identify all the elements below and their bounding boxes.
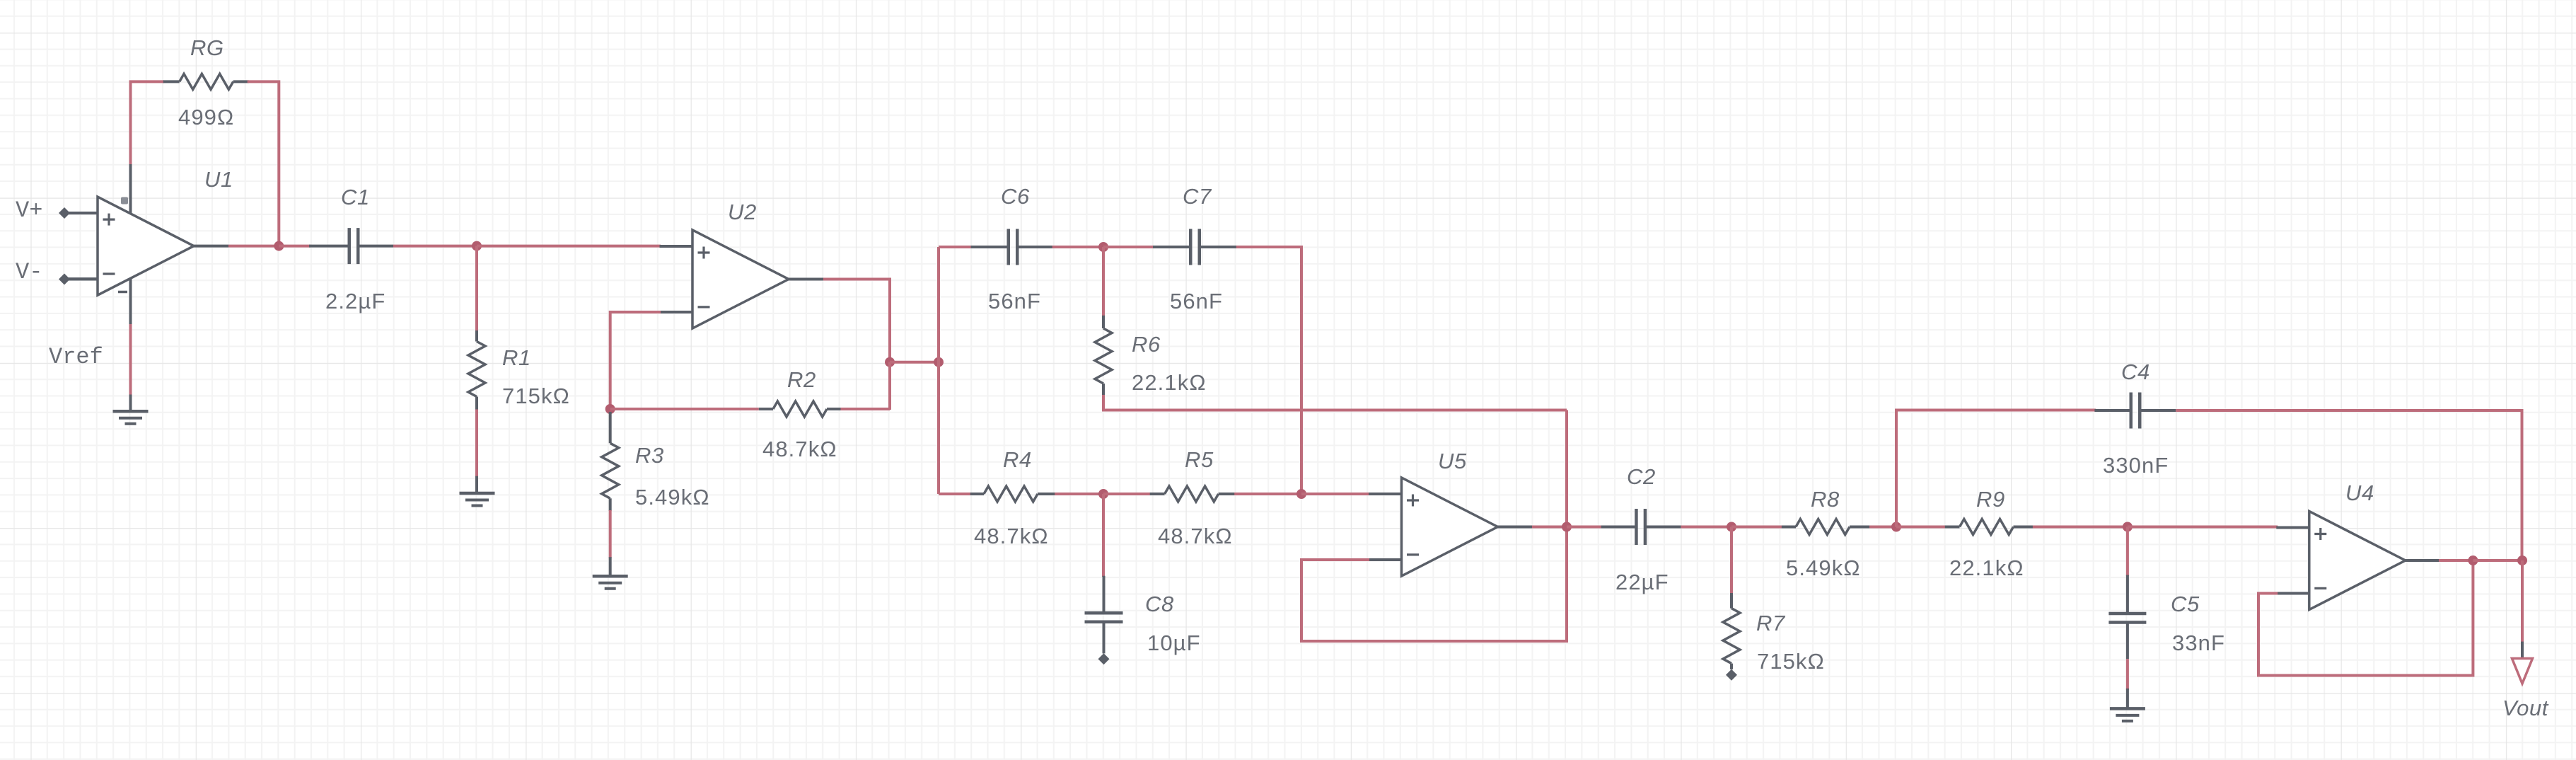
wire bbox=[1532, 526, 1567, 529]
capacitor C4 bbox=[2094, 393, 2176, 429]
label C1 bbox=[341, 185, 370, 209]
wire bbox=[1236, 247, 1301, 494]
wire bbox=[2128, 526, 2278, 529]
wire bbox=[939, 493, 971, 495]
svg-text:R8: R8 bbox=[1811, 487, 1840, 512]
label C5 bbox=[2171, 592, 2200, 616]
svg-text:C6: C6 bbox=[1001, 184, 1030, 209]
wire bbox=[475, 246, 478, 331]
wire bbox=[1896, 410, 2096, 527]
value 715kΩ bbox=[502, 384, 570, 408]
op-amp U1 bbox=[65, 163, 229, 326]
svg-text:R7: R7 bbox=[1756, 611, 1786, 635]
wire bbox=[1103, 493, 1151, 495]
wire bbox=[890, 361, 939, 364]
svg-text:RG: RG bbox=[190, 35, 224, 60]
svg-text:56nF: 56nF bbox=[988, 289, 1041, 313]
svg-text:R5: R5 bbox=[1185, 447, 1214, 472]
label R6 bbox=[1132, 332, 1161, 357]
wire bbox=[2439, 559, 2473, 562]
svg-text:22.1kΩ: 22.1kΩ bbox=[1132, 370, 1207, 395]
label C7 bbox=[1183, 184, 1212, 209]
wire bbox=[131, 81, 165, 164]
terminal Vout bbox=[2512, 659, 2533, 684]
svg-text:U5: U5 bbox=[1438, 449, 1467, 473]
wire bbox=[1234, 493, 1301, 495]
wire bbox=[475, 410, 478, 478]
label U5 bbox=[1438, 449, 1467, 473]
wire bbox=[937, 247, 940, 494]
junction bbox=[934, 357, 944, 367]
value 5.49kΩ bbox=[635, 485, 710, 509]
label U2 bbox=[728, 200, 757, 224]
wire bbox=[2126, 527, 2129, 577]
value 48.7kΩ bbox=[1158, 524, 1233, 548]
junction bbox=[2468, 555, 2478, 565]
node Vout bbox=[2502, 696, 2549, 720]
junction bbox=[885, 357, 895, 367]
node Vref bbox=[49, 344, 103, 370]
svg-text:C5: C5 bbox=[2171, 592, 2200, 616]
wire bbox=[129, 324, 132, 396]
junction bbox=[605, 404, 615, 414]
svg-text:10µF: 10µF bbox=[1147, 631, 1201, 655]
value 10µF bbox=[1147, 631, 1201, 655]
junction bbox=[472, 241, 482, 251]
op-amp U4 bbox=[2276, 512, 2440, 610]
svg-text:U1: U1 bbox=[204, 167, 233, 192]
wire bbox=[841, 408, 890, 410]
wire bbox=[1102, 494, 1105, 577]
svg-text:22.1kΩ: 22.1kΩ bbox=[1949, 555, 2024, 580]
wire bbox=[609, 557, 612, 576]
wire bbox=[2258, 562, 2473, 676]
wire bbox=[1301, 528, 1567, 641]
resistor R3 bbox=[602, 412, 619, 511]
label C8 bbox=[1145, 592, 1174, 616]
svg-text:U4: U4 bbox=[2345, 480, 2374, 505]
svg-text:48.7kΩ: 48.7kΩ bbox=[762, 437, 837, 461]
svg-text:C1: C1 bbox=[341, 185, 370, 209]
capacitor C1 bbox=[309, 228, 393, 264]
svg-text:56nF: 56nF bbox=[1170, 289, 1223, 313]
wire bbox=[248, 81, 279, 246]
resistor R6 bbox=[1095, 316, 1112, 396]
resistor R1 bbox=[468, 330, 485, 410]
svg-text:48.7kΩ: 48.7kΩ bbox=[1158, 524, 1233, 548]
wire bbox=[2521, 642, 2524, 659]
wire bbox=[393, 245, 477, 248]
wire bbox=[1567, 526, 1603, 529]
resistor R9 bbox=[1945, 519, 2034, 535]
wire bbox=[1730, 527, 1733, 595]
svg-text:2.2µF: 2.2µF bbox=[325, 289, 385, 313]
value 5.49kΩ bbox=[1786, 555, 1861, 580]
svg-text:48.7kΩ: 48.7kΩ bbox=[974, 524, 1049, 548]
label R2 bbox=[787, 367, 816, 392]
wire bbox=[1869, 526, 1896, 529]
junction bbox=[1727, 522, 1736, 532]
wire bbox=[1103, 246, 1154, 248]
svg-text:C7: C7 bbox=[1183, 184, 1212, 209]
value 330nF bbox=[2103, 453, 2169, 478]
pin bbox=[1726, 669, 1737, 681]
wire bbox=[1896, 526, 1946, 529]
label R1 bbox=[502, 345, 531, 370]
value 48.7kΩ bbox=[762, 437, 837, 461]
label C4 bbox=[2121, 359, 2150, 384]
wire bbox=[1052, 246, 1103, 248]
node V+ bbox=[16, 197, 98, 224]
node V- bbox=[16, 259, 98, 285]
wire bbox=[2521, 560, 2524, 643]
svg-text:C2: C2 bbox=[1627, 464, 1656, 489]
wire bbox=[823, 280, 890, 362]
svg-text:V+: V+ bbox=[16, 197, 42, 224]
label R8 bbox=[1811, 487, 1840, 512]
wire bbox=[1301, 493, 1369, 495]
value 499Ω bbox=[178, 105, 234, 129]
capacitor C7 bbox=[1153, 229, 1237, 265]
label R7 bbox=[1756, 611, 1786, 635]
label U4 bbox=[2345, 480, 2374, 505]
svg-text:5.49kΩ: 5.49kΩ bbox=[1786, 555, 1861, 580]
wire bbox=[609, 510, 612, 558]
label R3 bbox=[635, 443, 664, 468]
ground bbox=[2110, 708, 2145, 721]
svg-text:330nF: 330nF bbox=[2103, 453, 2169, 478]
value 56nF bbox=[988, 289, 1041, 313]
value 22.1kΩ bbox=[1132, 370, 1207, 395]
label R9 bbox=[1976, 487, 2005, 512]
label C2 bbox=[1627, 464, 1656, 489]
capacitor C5 bbox=[2108, 575, 2146, 660]
junction bbox=[1296, 489, 1306, 499]
value 48.7kΩ bbox=[974, 524, 1049, 548]
value 56nF bbox=[1170, 289, 1223, 313]
label U1 bbox=[204, 167, 233, 192]
svg-text:33nF: 33nF bbox=[2172, 631, 2225, 655]
value 715kΩ bbox=[1757, 649, 1825, 674]
svg-text:499Ω: 499Ω bbox=[178, 105, 234, 129]
wire bbox=[279, 245, 311, 248]
junction bbox=[2517, 555, 2527, 565]
svg-text:U2: U2 bbox=[728, 200, 757, 224]
resistor R7 bbox=[1723, 593, 1740, 669]
label R4 bbox=[1003, 447, 1032, 472]
svg-text:R1: R1 bbox=[502, 345, 531, 370]
svg-text:R3: R3 bbox=[635, 443, 664, 468]
op-amp U2 bbox=[660, 230, 824, 328]
wire bbox=[475, 476, 478, 493]
junction bbox=[274, 241, 284, 251]
svg-text:Vout: Vout bbox=[2502, 696, 2549, 720]
svg-text:V-: V- bbox=[16, 259, 42, 285]
junction bbox=[1562, 522, 1572, 532]
wire bbox=[2473, 559, 2522, 562]
wire bbox=[1565, 410, 1568, 527]
label R5 bbox=[1185, 447, 1214, 472]
svg-text:22µF: 22µF bbox=[1615, 570, 1669, 594]
wire bbox=[1102, 247, 1105, 316]
svg-text:715kΩ: 715kΩ bbox=[502, 384, 570, 408]
svg-text:R6: R6 bbox=[1132, 332, 1161, 357]
wire bbox=[1681, 526, 1731, 529]
value 33nF bbox=[2172, 631, 2225, 655]
pin bbox=[1098, 653, 1110, 664]
svg-text:5.49kΩ: 5.49kΩ bbox=[635, 485, 710, 509]
ground bbox=[113, 411, 149, 424]
resistor R8 bbox=[1782, 519, 1871, 535]
wire bbox=[1055, 493, 1103, 495]
wire bbox=[228, 245, 279, 248]
value 22.1kΩ bbox=[1949, 555, 2024, 580]
wire bbox=[2033, 526, 2128, 529]
wire bbox=[129, 395, 132, 412]
wire bbox=[2176, 410, 2522, 560]
ground bbox=[593, 576, 628, 589]
wire bbox=[610, 312, 661, 410]
svg-text:Vref: Vref bbox=[49, 344, 103, 370]
wire bbox=[888, 362, 891, 410]
wire bbox=[1731, 526, 1783, 529]
resistor R2 bbox=[610, 401, 842, 417]
resistor RG bbox=[163, 74, 249, 89]
junction bbox=[1098, 489, 1108, 499]
svg-text:R2: R2 bbox=[787, 367, 816, 392]
junction bbox=[2123, 522, 2133, 532]
resistor R5 bbox=[1150, 486, 1236, 502]
svg-text:715kΩ: 715kΩ bbox=[1757, 649, 1825, 674]
wire bbox=[939, 246, 972, 248]
svg-text:R4: R4 bbox=[1003, 447, 1032, 472]
capacitor C2 bbox=[1601, 509, 1681, 545]
wire bbox=[2126, 689, 2129, 708]
label C6 bbox=[1001, 184, 1030, 209]
svg-text:C4: C4 bbox=[2121, 359, 2150, 384]
capacitor C8 bbox=[1085, 576, 1123, 654]
junction bbox=[1098, 242, 1108, 252]
wire bbox=[2126, 659, 2129, 690]
ground bbox=[460, 493, 495, 506]
value 22µF bbox=[1615, 570, 1669, 594]
value 2.2µF bbox=[325, 289, 385, 313]
junction bbox=[1891, 522, 1901, 532]
op-amp U5 bbox=[1369, 478, 1533, 576]
wire bbox=[477, 245, 661, 248]
capacitor C6 bbox=[971, 229, 1053, 265]
svg-text:R9: R9 bbox=[1976, 487, 2005, 512]
wire bbox=[1103, 395, 1567, 410]
svg-text:C8: C8 bbox=[1145, 592, 1174, 616]
resistor R4 bbox=[970, 486, 1056, 502]
label RG bbox=[190, 35, 224, 60]
